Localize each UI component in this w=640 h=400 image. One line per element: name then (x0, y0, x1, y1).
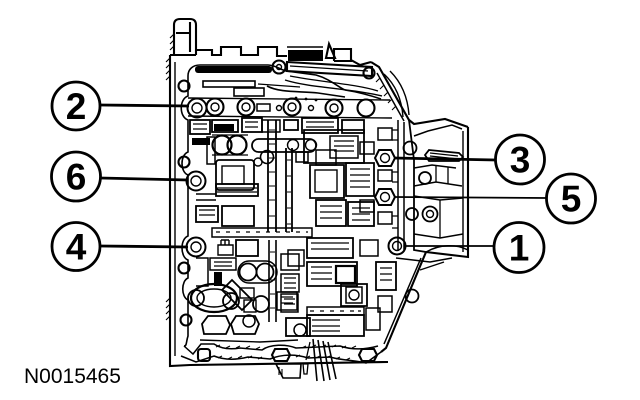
svg-text:1: 1 (509, 228, 530, 269)
svg-text:3: 3 (510, 140, 531, 181)
svg-text:2: 2 (66, 86, 87, 127)
svg-text:5: 5 (561, 179, 582, 220)
svg-text:6: 6 (66, 157, 87, 198)
svg-text:N0015465: N0015465 (24, 365, 121, 388)
svg-text:4: 4 (66, 227, 87, 268)
